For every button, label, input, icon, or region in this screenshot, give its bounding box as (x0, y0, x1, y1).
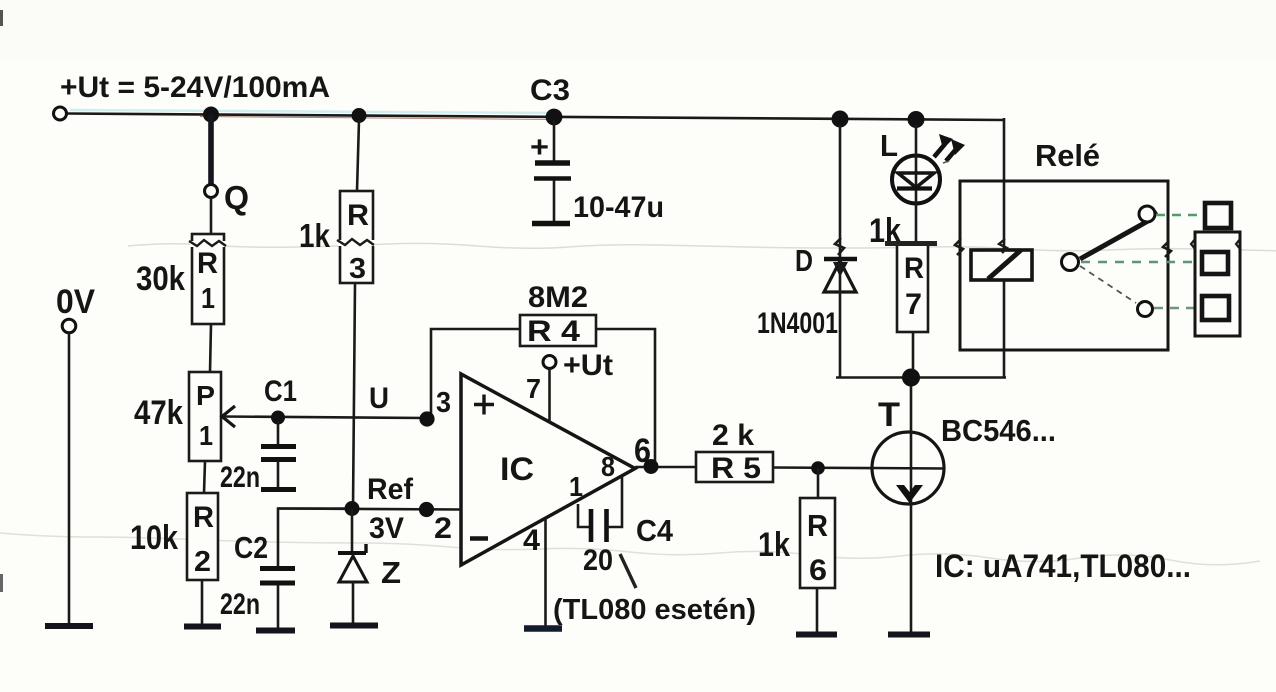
svg-text:3V: 3V (369, 512, 404, 545)
svg-text:1k: 1k (299, 217, 331, 254)
svg-text:Z: Z (381, 555, 401, 590)
svg-text:10-47u: 10-47u (573, 191, 664, 224)
svg-text:BC546...: BC546... (941, 413, 1056, 448)
svg-text:1N4001: 1N4001 (757, 307, 838, 340)
svg-text:20: 20 (583, 544, 613, 577)
svg-text:R 5: R 5 (711, 452, 761, 485)
svg-text:R: R (807, 508, 828, 543)
svg-text:2: 2 (194, 546, 211, 578)
svg-text:7: 7 (526, 373, 541, 404)
svg-text:1k: 1k (758, 526, 790, 564)
svg-text:1: 1 (201, 283, 215, 315)
svg-text:R: R (197, 247, 218, 280)
svg-text:3: 3 (436, 387, 451, 419)
svg-text:IC: IC (500, 451, 534, 487)
svg-text:2: 2 (434, 512, 452, 545)
svg-text:+: + (530, 131, 549, 164)
svg-text:7: 7 (905, 288, 922, 321)
svg-text:R: R (347, 199, 369, 232)
svg-text:47k: 47k (134, 394, 183, 432)
svg-text:+Ut = 5-24V/100mA: +Ut = 5-24V/100mA (60, 71, 330, 104)
svg-text:C4: C4 (636, 513, 674, 548)
svg-text:30k: 30k (136, 260, 185, 298)
svg-text:(TL080 esetén): (TL080 esetén) (553, 594, 756, 626)
svg-text:D: D (795, 243, 813, 278)
svg-text:P: P (196, 380, 215, 411)
svg-text:L: L (880, 128, 898, 163)
svg-text:IC: uA741,TL080...: IC: uA741,TL080... (935, 548, 1191, 584)
svg-text:T: T (878, 396, 900, 434)
svg-text:Ref: Ref (367, 473, 414, 506)
svg-text:3: 3 (349, 253, 366, 285)
svg-text:0V: 0V (56, 283, 95, 321)
svg-text:R 4: R 4 (527, 315, 580, 348)
svg-text:8: 8 (601, 451, 615, 482)
svg-text:22n: 22n (220, 588, 260, 621)
svg-text:2 k: 2 k (712, 419, 754, 452)
svg-text:U: U (369, 382, 389, 415)
svg-text:R: R (193, 501, 214, 534)
svg-text:8M2: 8M2 (528, 281, 588, 314)
svg-text:+Ut: +Ut (563, 349, 613, 382)
svg-text:C1: C1 (264, 375, 297, 408)
svg-text:10k: 10k (130, 519, 178, 557)
svg-text:Relé: Relé (1035, 138, 1100, 173)
svg-text:Q: Q (224, 179, 249, 216)
svg-text:1: 1 (569, 471, 583, 502)
svg-text:1: 1 (199, 420, 213, 451)
svg-text:C3: C3 (530, 74, 570, 107)
svg-text:22n: 22n (220, 461, 260, 494)
svg-text:R: R (904, 252, 924, 285)
svg-text:6: 6 (809, 554, 827, 587)
svg-text:C2: C2 (234, 530, 268, 565)
svg-text:4: 4 (523, 524, 540, 557)
